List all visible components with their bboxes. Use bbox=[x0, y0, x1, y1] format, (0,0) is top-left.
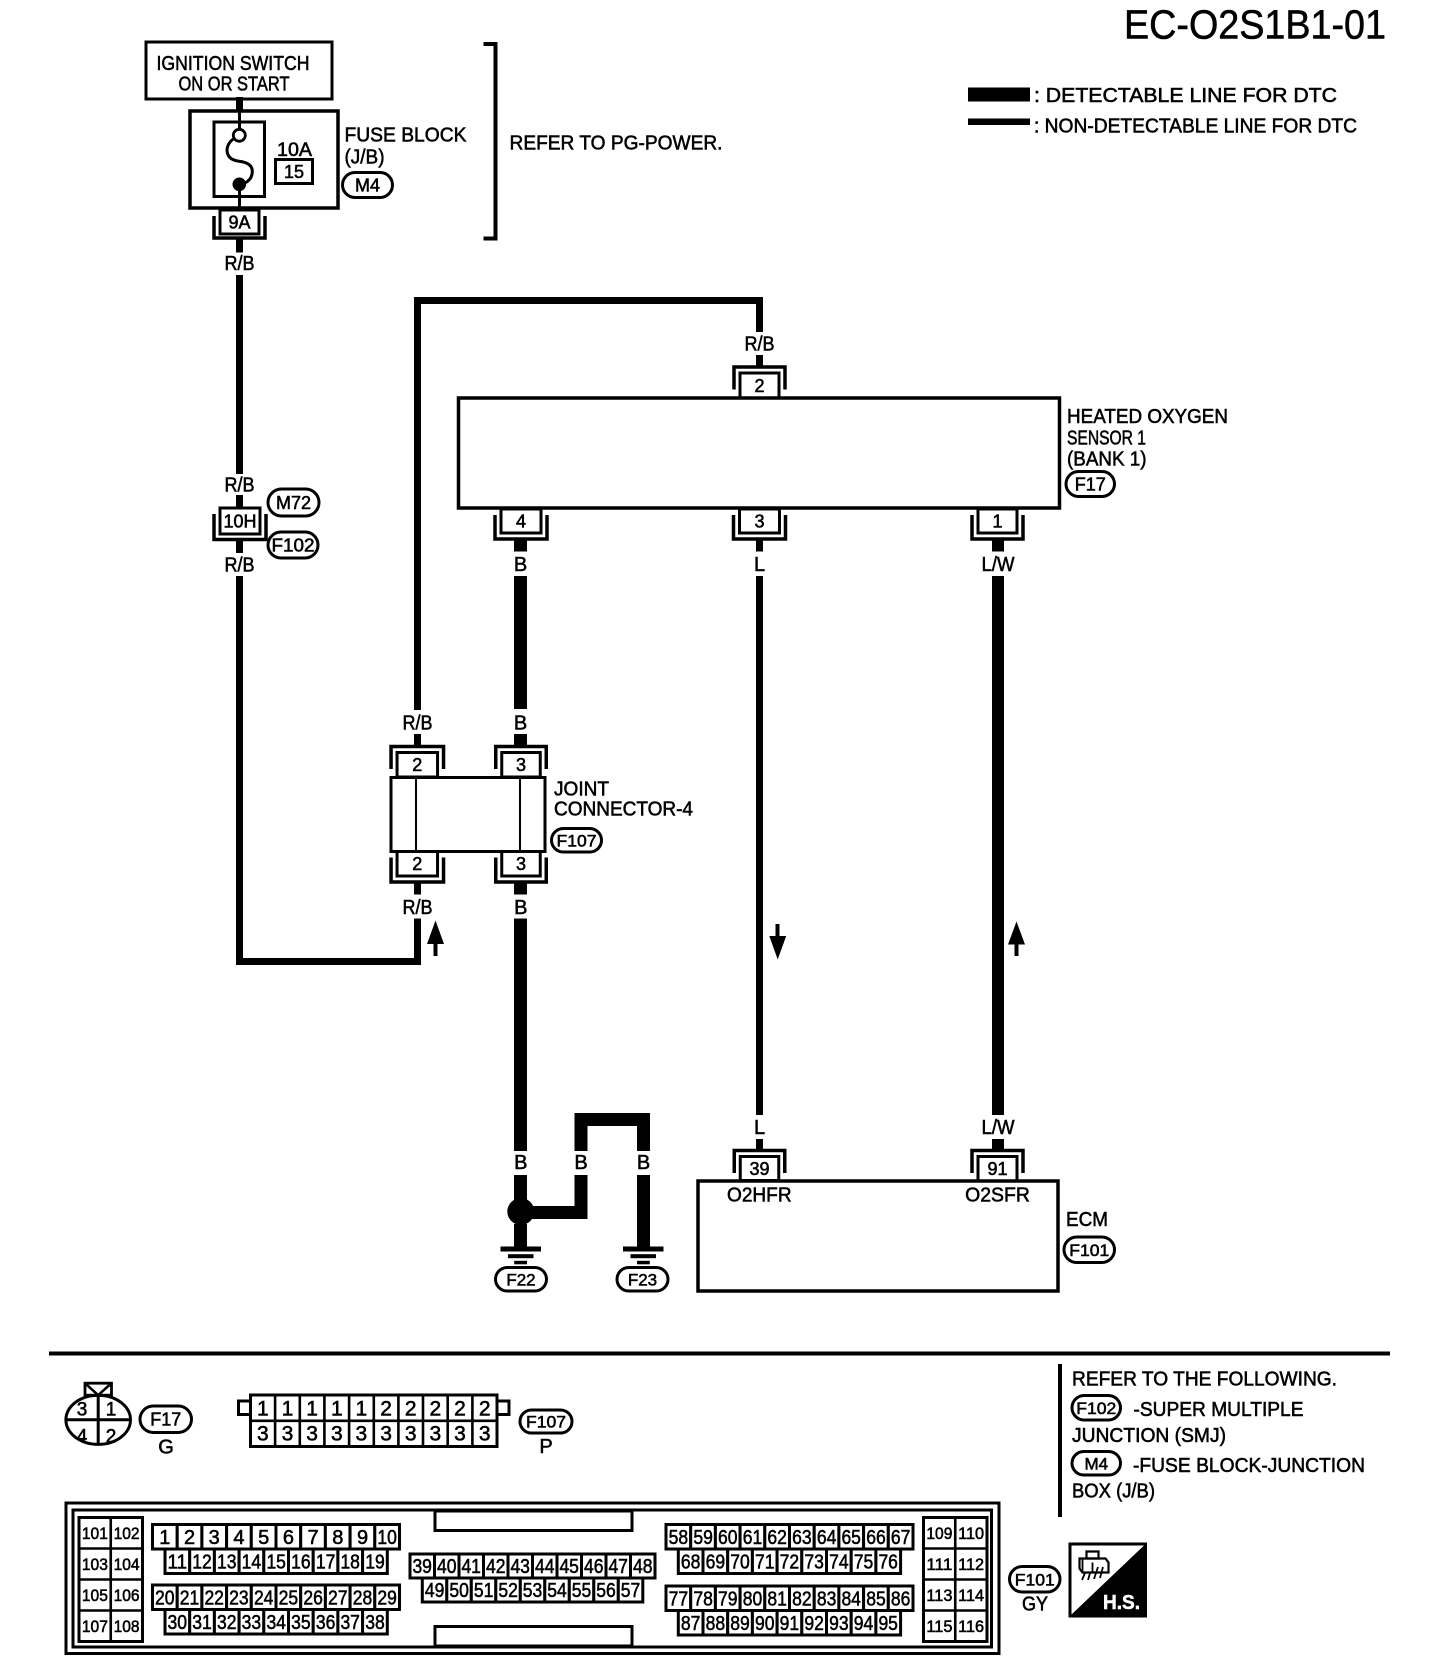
svg-text:54: 54 bbox=[547, 1580, 567, 1602]
svg-text:1: 1 bbox=[306, 1398, 318, 1421]
svg-text:3: 3 bbox=[257, 1423, 269, 1446]
legend non-detectable line for DTC bbox=[968, 116, 1357, 138]
svg-text:83: 83 bbox=[817, 1588, 837, 1610]
svg-text:3: 3 bbox=[516, 755, 526, 775]
wire R/B top horizontal run bbox=[414, 297, 763, 710]
connector view F101 row 30-38 bbox=[165, 1610, 387, 1635]
wire B bridge junction to F23 bbox=[527, 1113, 650, 1219]
label R/B below 10H bbox=[225, 555, 255, 577]
svg-text:87: 87 bbox=[681, 1613, 701, 1635]
svg-text:114: 114 bbox=[958, 1586, 984, 1605]
svg-text:66: 66 bbox=[866, 1527, 886, 1549]
wire L pin 3 to ECM 39 bbox=[756, 576, 763, 1115]
label B below pin 4 bbox=[514, 554, 527, 576]
svg-text:73: 73 bbox=[804, 1551, 824, 1573]
wire R/B below 10H bbox=[236, 541, 243, 553]
svg-text:55: 55 bbox=[572, 1580, 592, 1602]
svg-text:6: 6 bbox=[283, 1527, 294, 1549]
svg-text:9: 9 bbox=[357, 1527, 368, 1549]
svg-text:3: 3 bbox=[209, 1527, 220, 1549]
refer divider line bbox=[1058, 1364, 1062, 1517]
svg-text:111: 111 bbox=[926, 1555, 952, 1574]
svg-text:13: 13 bbox=[217, 1551, 237, 1573]
wire L/W into ECM 91 bbox=[992, 1139, 1004, 1151]
connector view F17 color G bbox=[158, 1437, 174, 1459]
ground F23 oval bbox=[617, 1268, 668, 1292]
svg-text:O2HFR: O2HFR bbox=[727, 1185, 792, 1207]
svg-text:74: 74 bbox=[829, 1551, 849, 1573]
connector view F17 oval bbox=[140, 1406, 192, 1433]
svg-text:56: 56 bbox=[596, 1580, 616, 1602]
connector F107 oval bbox=[552, 829, 602, 853]
svg-text:2: 2 bbox=[754, 376, 764, 396]
svg-text:29: 29 bbox=[377, 1587, 397, 1609]
svg-text:3: 3 bbox=[77, 1400, 88, 1421]
sensor label bbox=[1067, 406, 1228, 471]
connector view F101 block 101-108 bbox=[79, 1518, 143, 1642]
wire B bridge middle lower bbox=[575, 1175, 588, 1219]
svg-text:10A: 10A bbox=[277, 140, 312, 161]
svg-text:JUNCTION (SMJ): JUNCTION (SMJ) bbox=[1072, 1425, 1226, 1447]
refer F102 oval bbox=[1072, 1396, 1121, 1421]
svg-text:2: 2 bbox=[184, 1527, 195, 1549]
svg-text:1: 1 bbox=[159, 1527, 170, 1549]
wire ignition switch to fuse block bbox=[236, 97, 243, 112]
svg-text:101: 101 bbox=[82, 1524, 108, 1543]
connector F102 oval bbox=[268, 532, 318, 558]
wire R/B up to joint connector bbox=[414, 919, 421, 966]
svg-text:64: 64 bbox=[817, 1527, 837, 1549]
svg-text:36: 36 bbox=[316, 1612, 336, 1634]
heated oxygen sensor box bbox=[459, 398, 1060, 508]
svg-text:: DETECTABLE LINE FOR DTC: : DETECTABLE LINE FOR DTC bbox=[1034, 85, 1337, 107]
wire L into ECM 39 bbox=[756, 1139, 763, 1151]
svg-text:4: 4 bbox=[77, 1427, 88, 1448]
svg-text:108: 108 bbox=[114, 1617, 140, 1636]
label L/W below pin 1 bbox=[982, 554, 1015, 576]
wire B joint connector to junction bbox=[514, 919, 527, 1152]
svg-text:71: 71 bbox=[755, 1551, 775, 1573]
separator line bbox=[49, 1352, 1390, 1356]
connector F17 oval bbox=[1066, 472, 1115, 497]
svg-text:30: 30 bbox=[168, 1612, 188, 1634]
sensor pin 1 bbox=[972, 509, 1023, 539]
svg-text:58: 58 bbox=[669, 1527, 689, 1549]
svg-text:112: 112 bbox=[958, 1555, 984, 1574]
svg-text:: NON-DETECTABLE LINE FOR DTC: : NON-DETECTABLE LINE FOR DTC bbox=[1034, 116, 1357, 138]
svg-text:37: 37 bbox=[340, 1612, 360, 1634]
svg-text:27: 27 bbox=[328, 1587, 348, 1609]
label L/W above ECM 91 bbox=[982, 1117, 1015, 1139]
connector view F101 oval bbox=[1010, 1567, 1061, 1593]
svg-text:M72: M72 bbox=[276, 493, 311, 513]
label R/B below 9A bbox=[225, 253, 255, 275]
svg-text:38: 38 bbox=[365, 1612, 385, 1634]
svg-text:M4: M4 bbox=[355, 175, 380, 195]
svg-text:106: 106 bbox=[114, 1586, 140, 1605]
svg-text:76: 76 bbox=[878, 1551, 898, 1573]
svg-text:R/B: R/B bbox=[745, 334, 775, 356]
svg-text:1: 1 bbox=[257, 1398, 269, 1421]
svg-text:11: 11 bbox=[168, 1551, 188, 1573]
svg-text:4: 4 bbox=[516, 511, 526, 531]
svg-text:19: 19 bbox=[365, 1551, 385, 1573]
svg-text:F22: F22 bbox=[506, 1270, 535, 1289]
svg-text:47: 47 bbox=[608, 1556, 628, 1578]
svg-text:HEATED OXYGEN: HEATED OXYGEN bbox=[1067, 406, 1228, 428]
label B above junction bbox=[514, 1152, 527, 1174]
connector view F101 outer box bbox=[66, 1503, 999, 1654]
svg-text:3: 3 bbox=[282, 1423, 294, 1446]
svg-text:G: G bbox=[158, 1437, 174, 1459]
wire R/B joint connector 2 stub bottom bbox=[414, 883, 421, 895]
svg-text:116: 116 bbox=[958, 1617, 984, 1636]
refer to PG-POWER bracket bbox=[484, 44, 723, 239]
svg-text:35: 35 bbox=[291, 1612, 311, 1634]
svg-text:2: 2 bbox=[106, 1427, 117, 1448]
legend detectable line for DTC bbox=[968, 85, 1337, 107]
ECM O2SFR label bbox=[965, 1185, 1030, 1207]
svg-text:F107: F107 bbox=[557, 831, 597, 850]
svg-text:12: 12 bbox=[192, 1551, 212, 1573]
refer M4 text bbox=[1072, 1455, 1365, 1503]
svg-text:63: 63 bbox=[792, 1527, 812, 1549]
svg-text:115: 115 bbox=[926, 1617, 952, 1636]
connector view F101 row 58-67 bbox=[666, 1525, 913, 1550]
wire B bridge right to ground F23 bbox=[637, 1175, 650, 1247]
svg-text:ON OR START: ON OR START bbox=[179, 74, 290, 96]
svg-text:2: 2 bbox=[412, 854, 422, 874]
svg-text:2: 2 bbox=[380, 1398, 392, 1421]
svg-text:102: 102 bbox=[114, 1524, 140, 1543]
title EC-O2S1B1-01 bbox=[1124, 2, 1386, 48]
connector view F107 oval bbox=[520, 1410, 572, 1433]
svg-text:67: 67 bbox=[891, 1527, 911, 1549]
svg-text:-SUPER MULTIPLE: -SUPER MULTIPLE bbox=[1134, 1399, 1304, 1421]
svg-text:3: 3 bbox=[516, 854, 526, 874]
svg-text:61: 61 bbox=[743, 1527, 763, 1549]
wire R/B bottom horizontal run bbox=[236, 958, 421, 965]
svg-text:EC-O2S1B1-01: EC-O2S1B1-01 bbox=[1124, 2, 1386, 48]
svg-text:FUSE BLOCK: FUSE BLOCK bbox=[345, 125, 468, 147]
svg-text:24: 24 bbox=[254, 1587, 274, 1609]
svg-text:F17: F17 bbox=[150, 1410, 181, 1430]
svg-text:IGNITION SWITCH: IGNITION SWITCH bbox=[157, 53, 310, 75]
svg-text:L/W: L/W bbox=[982, 1117, 1015, 1139]
fuse rating 10A and number 15 bbox=[276, 140, 313, 184]
svg-text:91: 91 bbox=[987, 1159, 1007, 1179]
wire R/B 9A to 10H bbox=[236, 275, 243, 474]
connector view F101 row 68-76 bbox=[678, 1549, 900, 1574]
connector view F101 row 49-57 bbox=[422, 1578, 643, 1602]
svg-text:92: 92 bbox=[804, 1613, 824, 1635]
svg-text:F101: F101 bbox=[1015, 1570, 1055, 1589]
svg-text:90: 90 bbox=[755, 1613, 775, 1635]
svg-text:39: 39 bbox=[749, 1159, 769, 1179]
svg-text:9A: 9A bbox=[228, 212, 250, 232]
svg-text:R/B: R/B bbox=[403, 897, 433, 919]
wire R/B 10H down to corner bbox=[236, 576, 243, 961]
connector view F101 block 109-116 bbox=[924, 1518, 988, 1642]
svg-text:48: 48 bbox=[633, 1556, 653, 1578]
joint connector body bbox=[391, 778, 545, 852]
svg-text:23: 23 bbox=[229, 1587, 249, 1609]
svg-text:REFER TO THE FOLLOWING.: REFER TO THE FOLLOWING. bbox=[1072, 1369, 1337, 1391]
connector view F101 color GY bbox=[1022, 1594, 1048, 1616]
svg-text:91: 91 bbox=[780, 1613, 800, 1635]
svg-text:43: 43 bbox=[510, 1556, 530, 1578]
fuse block connector M4 oval bbox=[343, 173, 393, 198]
joint connector pin 3 bottom bbox=[496, 852, 547, 883]
joint connector label bbox=[554, 779, 693, 821]
wire B into junction dot bbox=[514, 1175, 527, 1201]
svg-text:M4: M4 bbox=[1084, 1454, 1108, 1473]
svg-text:3: 3 bbox=[356, 1423, 368, 1446]
svg-text:1: 1 bbox=[356, 1398, 368, 1421]
connector view F101 row 39-48 bbox=[410, 1554, 655, 1578]
svg-text:B: B bbox=[514, 897, 527, 919]
svg-text:P: P bbox=[539, 1436, 552, 1458]
svg-text:26: 26 bbox=[303, 1587, 323, 1609]
connector view F107 rectangular bbox=[239, 1395, 510, 1447]
svg-text:50: 50 bbox=[449, 1580, 469, 1602]
svg-text:42: 42 bbox=[486, 1556, 506, 1578]
wire B joint connector 3 stub bottom bbox=[514, 883, 527, 895]
svg-text:F107: F107 bbox=[526, 1413, 566, 1432]
svg-text:78: 78 bbox=[693, 1588, 713, 1610]
svg-text:15: 15 bbox=[266, 1551, 286, 1573]
svg-text:1: 1 bbox=[106, 1400, 117, 1421]
svg-text:45: 45 bbox=[559, 1556, 579, 1578]
svg-text:49: 49 bbox=[425, 1580, 445, 1602]
junction dot bbox=[507, 1198, 534, 1225]
connector M72 oval bbox=[268, 489, 319, 516]
svg-text:79: 79 bbox=[718, 1588, 738, 1610]
svg-text:89: 89 bbox=[730, 1613, 750, 1635]
svg-text:57: 57 bbox=[621, 1580, 641, 1602]
sensor pin 3 bbox=[734, 509, 786, 539]
svg-text:F102: F102 bbox=[1076, 1399, 1116, 1418]
svg-text:BOX (J/B): BOX (J/B) bbox=[1072, 1481, 1155, 1503]
svg-text:40: 40 bbox=[437, 1556, 457, 1578]
svg-text:68: 68 bbox=[681, 1551, 701, 1573]
svg-text:1: 1 bbox=[992, 511, 1002, 531]
svg-text:2: 2 bbox=[454, 1398, 466, 1421]
ECM O2HFR label bbox=[727, 1185, 792, 1207]
svg-text:77: 77 bbox=[669, 1588, 689, 1610]
svg-text:F17: F17 bbox=[1075, 474, 1106, 494]
svg-text:F101: F101 bbox=[1069, 1241, 1109, 1260]
svg-text:R/B: R/B bbox=[225, 475, 255, 497]
svg-text:69: 69 bbox=[706, 1551, 726, 1573]
connector view F101 bottom slot bbox=[435, 1627, 632, 1647]
label R/B above joint connector 2 bbox=[403, 713, 433, 735]
svg-text:82: 82 bbox=[792, 1588, 812, 1610]
svg-text:JOINT: JOINT bbox=[554, 779, 609, 801]
svg-text:3: 3 bbox=[331, 1423, 343, 1446]
wire L/W sensor pin 1 stub bbox=[992, 541, 1004, 552]
connector view F101 top slot bbox=[435, 1511, 632, 1531]
svg-text:7: 7 bbox=[308, 1527, 319, 1549]
connector view F17 circular bbox=[66, 1383, 131, 1447]
svg-text:14: 14 bbox=[242, 1551, 262, 1573]
arrow up L/W bbox=[1008, 922, 1025, 957]
svg-text:85: 85 bbox=[866, 1588, 886, 1610]
svg-text:R/B: R/B bbox=[225, 253, 255, 275]
H.S. hand symbol bbox=[1070, 1544, 1146, 1616]
connector view F101 row 1-10 bbox=[153, 1525, 400, 1550]
svg-text:2: 2 bbox=[405, 1398, 417, 1421]
svg-text:3: 3 bbox=[479, 1423, 491, 1446]
label B bridge right bbox=[637, 1152, 650, 1174]
svg-text:L: L bbox=[754, 554, 765, 576]
svg-text:2: 2 bbox=[412, 755, 422, 775]
svg-text:32: 32 bbox=[217, 1612, 237, 1634]
arrow up R/B bbox=[427, 921, 444, 957]
svg-text:F102: F102 bbox=[272, 535, 315, 555]
svg-text:51: 51 bbox=[474, 1580, 494, 1602]
svg-text:3: 3 bbox=[405, 1423, 417, 1446]
connector view F101 row 20-29 bbox=[153, 1585, 400, 1610]
svg-text:(BANK 1): (BANK 1) bbox=[1067, 449, 1147, 471]
svg-text:8: 8 bbox=[332, 1527, 343, 1549]
wire B junction dot to ground F22 bbox=[514, 1224, 527, 1247]
label R/B below joint connector 2 bbox=[403, 897, 433, 919]
svg-text:3: 3 bbox=[306, 1423, 318, 1446]
svg-text:B: B bbox=[574, 1152, 587, 1174]
svg-text:B: B bbox=[514, 1152, 527, 1174]
wire L sensor pin 3 stub bbox=[756, 541, 763, 552]
svg-text:103: 103 bbox=[82, 1555, 108, 1574]
label B bridge middle bbox=[574, 1152, 587, 1174]
sensor pin 4 bbox=[495, 509, 547, 539]
connector 9A bbox=[214, 210, 265, 238]
svg-text:3: 3 bbox=[454, 1423, 466, 1446]
svg-text:H.S.: H.S. bbox=[1103, 1592, 1140, 1614]
svg-text:59: 59 bbox=[693, 1527, 713, 1549]
svg-text:R/B: R/B bbox=[225, 555, 255, 577]
svg-text:B: B bbox=[637, 1152, 650, 1174]
joint connector pin 3 top bbox=[496, 747, 547, 778]
svg-text:L: L bbox=[754, 1117, 765, 1139]
svg-text:70: 70 bbox=[730, 1551, 750, 1573]
svg-text:80: 80 bbox=[743, 1588, 763, 1610]
svg-text:ECM: ECM bbox=[1066, 1209, 1108, 1231]
fuse 15 symbol bbox=[214, 112, 265, 207]
svg-text:46: 46 bbox=[584, 1556, 604, 1578]
label R/B above 10H bbox=[225, 475, 255, 497]
svg-text:107: 107 bbox=[82, 1617, 108, 1636]
svg-text:60: 60 bbox=[718, 1527, 738, 1549]
joint connector pin 2 top bbox=[391, 747, 444, 778]
svg-text:95: 95 bbox=[878, 1613, 898, 1635]
label L above ECM 39 bbox=[754, 1117, 765, 1139]
connector view F101 row 77-86 bbox=[666, 1586, 913, 1611]
svg-text:3: 3 bbox=[754, 511, 764, 531]
svg-text:72: 72 bbox=[780, 1551, 800, 1573]
joint connector pin 2 bottom bbox=[391, 852, 444, 883]
ECM box bbox=[698, 1181, 1058, 1291]
svg-text:B: B bbox=[514, 554, 527, 576]
svg-text:113: 113 bbox=[926, 1586, 952, 1605]
label L below pin 3 bbox=[754, 554, 765, 576]
svg-text:16: 16 bbox=[291, 1551, 311, 1573]
svg-text:75: 75 bbox=[854, 1551, 874, 1573]
svg-text:84: 84 bbox=[841, 1588, 861, 1610]
svg-text:93: 93 bbox=[829, 1613, 849, 1635]
label R/B above sensor pin 2 bbox=[745, 334, 775, 356]
wire R/B joint connector 2 stub top bbox=[414, 734, 421, 747]
refer to the following text bbox=[1072, 1369, 1337, 1391]
wire B joint connector 3 stub top bbox=[514, 734, 527, 747]
refer F102 text bbox=[1072, 1399, 1304, 1447]
wire R/B into sensor pin 2 bbox=[756, 355, 763, 367]
svg-text:53: 53 bbox=[523, 1580, 543, 1602]
svg-text:65: 65 bbox=[841, 1527, 861, 1549]
svg-text:52: 52 bbox=[498, 1580, 518, 1602]
svg-text:O2SFR: O2SFR bbox=[965, 1185, 1030, 1207]
svg-text:L/W: L/W bbox=[982, 554, 1015, 576]
connector F101 oval bbox=[1064, 1237, 1115, 1263]
svg-text:10: 10 bbox=[377, 1527, 397, 1549]
svg-text:2: 2 bbox=[479, 1398, 491, 1421]
arrow down L bbox=[769, 924, 786, 960]
svg-text:39: 39 bbox=[412, 1556, 432, 1578]
svg-text:104: 104 bbox=[114, 1555, 140, 1574]
svg-text:3: 3 bbox=[380, 1423, 392, 1446]
svg-text:-FUSE BLOCK-JUNCTION: -FUSE BLOCK-JUNCTION bbox=[1133, 1455, 1365, 1477]
svg-text:20: 20 bbox=[155, 1587, 175, 1609]
connector view F101 row 11-19 bbox=[165, 1549, 387, 1574]
ECM label bbox=[1066, 1209, 1108, 1231]
svg-text:110: 110 bbox=[958, 1524, 984, 1543]
svg-text:81: 81 bbox=[767, 1588, 787, 1610]
svg-text:17: 17 bbox=[316, 1551, 336, 1573]
label B below joint connector 3 bbox=[514, 897, 527, 919]
ignition switch box bbox=[146, 42, 332, 99]
svg-text:33: 33 bbox=[242, 1612, 262, 1634]
svg-text:94: 94 bbox=[854, 1613, 874, 1635]
sensor pin 2 bbox=[734, 367, 785, 398]
svg-text:44: 44 bbox=[535, 1556, 555, 1578]
svg-text:62: 62 bbox=[767, 1527, 787, 1549]
ground symbol F22 bbox=[501, 1247, 542, 1265]
ECM pin 39 bbox=[734, 1151, 785, 1181]
connector view F107 color P bbox=[539, 1436, 552, 1458]
svg-text:GY: GY bbox=[1022, 1594, 1048, 1616]
ground symbol F23 bbox=[623, 1247, 664, 1265]
svg-text:SENSOR 1: SENSOR 1 bbox=[1067, 428, 1146, 450]
wire B sensor pin 4 stub bbox=[514, 541, 527, 552]
svg-text:86: 86 bbox=[891, 1588, 911, 1610]
svg-text:109: 109 bbox=[926, 1524, 952, 1543]
svg-text:105: 105 bbox=[82, 1586, 108, 1605]
svg-text:B: B bbox=[514, 713, 527, 735]
svg-text:88: 88 bbox=[706, 1613, 726, 1635]
svg-text:(J/B): (J/B) bbox=[345, 147, 385, 169]
fuse block label bbox=[345, 125, 468, 169]
svg-text:1: 1 bbox=[331, 1398, 343, 1421]
refer M4 oval bbox=[1072, 1452, 1121, 1476]
wire R/B into 10H bbox=[236, 495, 243, 509]
svg-text:21: 21 bbox=[180, 1587, 200, 1609]
svg-text:25: 25 bbox=[279, 1587, 299, 1609]
wire L/W pin 1 to ECM 91 bbox=[992, 576, 1004, 1115]
svg-text:1: 1 bbox=[282, 1398, 294, 1421]
svg-text:28: 28 bbox=[353, 1587, 373, 1609]
svg-text:10H: 10H bbox=[223, 511, 256, 531]
svg-text:22: 22 bbox=[204, 1587, 224, 1609]
